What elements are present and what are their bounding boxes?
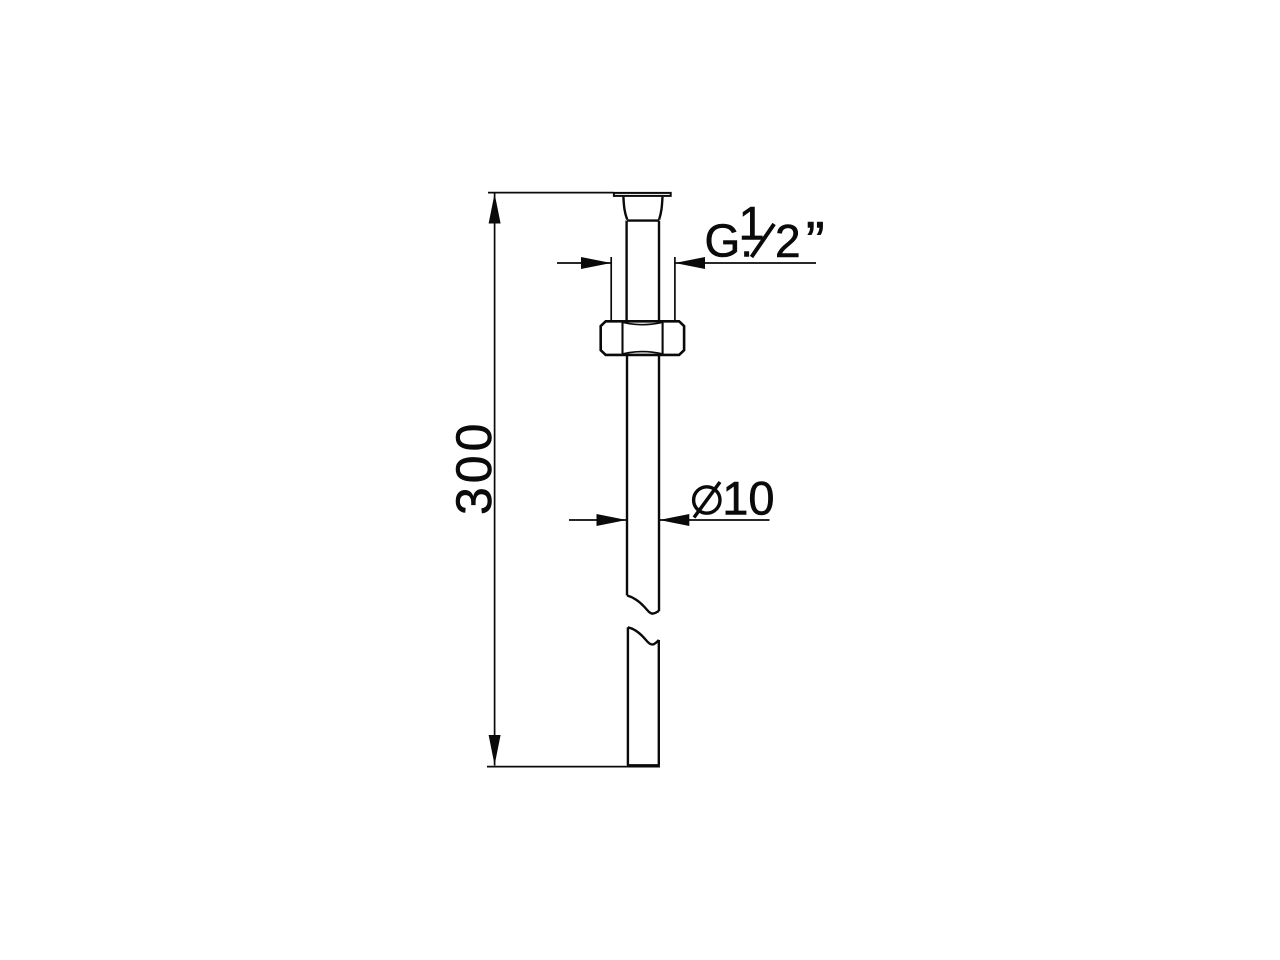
tube flared neck bbox=[623, 197, 662, 221]
svg-text:2: 2 bbox=[775, 215, 801, 267]
diameter symbol slash bbox=[694, 482, 720, 518]
dimension line o10 left segment bbox=[569, 519, 626, 521]
arrowhead G1/2 left (pointing right) bbox=[581, 257, 611, 269]
svg-text:”: ” bbox=[806, 210, 825, 274]
hex nut body bbox=[601, 321, 684, 355]
arrowhead o10 right (pointing left) bbox=[659, 514, 689, 526]
tube bottom edge bbox=[627, 764, 660, 766]
diameter symbol circle bbox=[694, 487, 720, 513]
tube lower section right edge bbox=[658, 640, 660, 765]
dimension line G1/2 left segment bbox=[557, 262, 611, 264]
extension line G1/2 right bbox=[674, 257, 676, 321]
tube flange (top cap) bbox=[614, 193, 671, 196]
label fraction slash bbox=[752, 224, 775, 257]
arrowhead o10 left (pointing right) bbox=[597, 514, 627, 526]
svg-text:300: 300 bbox=[446, 420, 502, 515]
tube upper section right edge bbox=[658, 221, 660, 322]
hex nut top chamfer arc bbox=[623, 322, 663, 324]
tube upper section left edge bbox=[625, 221, 627, 322]
dimension line G1/2 right segment bbox=[675, 262, 816, 264]
svg-text:10: 10 bbox=[722, 472, 774, 525]
arrowhead G1/2 right (pointing left) bbox=[675, 257, 705, 269]
hex nut bottom chamfer arc bbox=[623, 352, 663, 354]
arrowhead bottom of 300 dimension bbox=[489, 735, 501, 765]
extension line top bbox=[488, 192, 614, 194]
break line lower bbox=[628, 627, 659, 644]
break line upper bbox=[627, 595, 659, 613]
hex nut left facet line bbox=[621, 321, 623, 355]
arrowhead top of 300 dimension bbox=[489, 194, 501, 224]
tube middle section right edge bbox=[658, 355, 660, 611]
tube middle section left edge bbox=[626, 355, 628, 596]
dimension line 300 (vertical) bbox=[494, 193, 496, 766]
extension line G1/2 left bbox=[610, 257, 612, 321]
extension line bottom bbox=[487, 766, 660, 768]
dimension line o10 right segment bbox=[659, 519, 769, 521]
tube lower section left edge bbox=[627, 627, 629, 765]
hex nut right facet line bbox=[662, 321, 664, 355]
